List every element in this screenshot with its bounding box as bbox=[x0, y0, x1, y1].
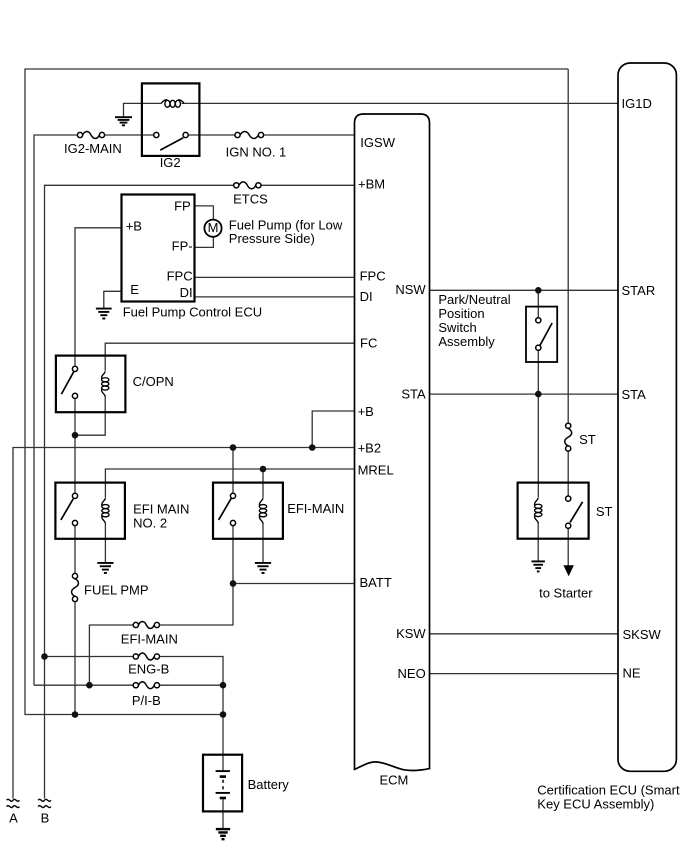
relay EFI-MAIN switch blade bbox=[219, 498, 232, 520]
junction ENG-B row on node B line bbox=[41, 653, 48, 660]
fuse IGN NO. 1 bbox=[240, 132, 258, 139]
wire EFI MAIN NO. 2 relay coil to ground bbox=[104, 522, 106, 562]
wire P/I-B fuse to battery positive column bbox=[160, 684, 224, 686]
fuse EFI-MAIN bbox=[138, 622, 154, 629]
wire ECM pin MREL row to EFI MAIN NO. 2 relay coil bbox=[105, 469, 354, 498]
wire battery negative to ground bbox=[222, 798, 224, 829]
svg-text:ENG-B: ENG-B bbox=[128, 662, 169, 677]
park/neutral position switch contacts bbox=[536, 318, 541, 323]
svg-text:NSW: NSW bbox=[395, 282, 426, 297]
wire IG2 relay coil to Certification ECU pin IG1D bbox=[182, 102, 618, 104]
junction FUEL PMP line / battery feed row bbox=[72, 711, 79, 718]
wire node B branch (vertical to break B, row to ETCS fuse) bbox=[45, 185, 234, 798]
wire C/OPN relay coil return to switch line junction bbox=[75, 396, 105, 436]
svg-text:KSW: KSW bbox=[396, 626, 426, 641]
relay EFI MAIN NO. 2 box bbox=[55, 483, 125, 539]
fuse P/I-B bbox=[138, 682, 154, 689]
svg-text:NE: NE bbox=[623, 666, 641, 681]
break symbol node B bbox=[38, 799, 51, 801]
svg-text:IG2-MAIN: IG2-MAIN bbox=[64, 141, 122, 156]
svg-text:to Starter: to Starter bbox=[539, 585, 593, 600]
svg-text:+B: +B bbox=[358, 404, 374, 419]
svg-text:B: B bbox=[41, 811, 50, 826]
svg-text:+B2: +B2 bbox=[358, 440, 382, 455]
svg-text:DI: DI bbox=[360, 289, 373, 304]
relay ST switch contacts bbox=[566, 496, 571, 501]
svg-text:FPC: FPC bbox=[167, 269, 193, 284]
wire park/neutral position switch to STA node bbox=[537, 350, 539, 394]
svg-text:Position: Position bbox=[438, 306, 484, 321]
ground G2 (Fuel Pump Control ECU pin E ground) bbox=[96, 308, 112, 310]
wire Fuel Pump Control ECU pin DI to ECM pin DI bbox=[195, 296, 355, 298]
relay ST switch blade bbox=[570, 502, 583, 523]
Fuel Pump Control ECU box bbox=[122, 195, 195, 302]
wire ECM pin FC to C/OPN relay coil bbox=[105, 343, 354, 371]
fuel pump motor M1 bbox=[204, 220, 221, 237]
wire IG2 relay coil to ground (left stub) bbox=[124, 103, 162, 117]
svg-text:Switch: Switch bbox=[438, 320, 476, 335]
wire ENG-B row (node B vertical to battery positive column) bbox=[45, 656, 134, 658]
wire EFI-MAIN fuse to P/I-B row junction bbox=[89, 625, 133, 685]
wire NSW node down to park/neutral position switch bbox=[537, 290, 539, 317]
ground G4 (EFI-MAIN relay coil ground) bbox=[255, 562, 271, 564]
svg-text:Park/Neutral: Park/Neutral bbox=[438, 292, 510, 307]
wire ECM pin NSW to Certification ECU pin STAR bbox=[430, 289, 619, 291]
svg-text:STAR: STAR bbox=[622, 283, 656, 298]
wire Fuel Pump Control ECU pin FP to fuel pump motor bbox=[195, 206, 214, 220]
wire EFI MAIN NO. 2 relay switch to FUEL PMP fuse bbox=[74, 526, 76, 574]
svg-text:DI: DI bbox=[180, 285, 193, 300]
junction P/I-B row / battery column bbox=[220, 682, 227, 689]
svg-text:Certification ECU (Smart: Certification ECU (Smart bbox=[537, 783, 680, 798]
wire ST fuse to ST relay switch bbox=[567, 451, 569, 496]
fuse ENG-B bbox=[138, 653, 154, 660]
fuse ST bbox=[565, 428, 572, 446]
junction +B2 row / EFI-MAIN relay switch bbox=[230, 444, 237, 451]
wire IG2-MAIN fuse to IG2 relay switch bbox=[105, 134, 154, 136]
wire EFI-MAIN relay coil to ground bbox=[262, 522, 264, 562]
junction +B stub on +B2 row bbox=[309, 444, 316, 451]
relay IG2 coil bbox=[161, 100, 167, 104]
svg-text:BATT: BATT bbox=[360, 575, 392, 590]
wire ECM pin NEO to Certification ECU pin NE bbox=[430, 673, 619, 675]
wire ST relay switch to starter (arrow) bbox=[567, 528, 569, 566]
svg-text:+B: +B bbox=[126, 218, 142, 233]
wire IGN NO. 1 fuse to ECM pin IGSW bbox=[264, 134, 355, 136]
svg-text:STA: STA bbox=[401, 386, 426, 401]
wire STA node down to ST relay coil bbox=[537, 394, 539, 497]
svg-text:ST: ST bbox=[596, 504, 613, 519]
battery plate long bottom bbox=[216, 792, 230, 794]
svg-text:NEO: NEO bbox=[398, 666, 426, 681]
svg-text:FP: FP bbox=[174, 199, 191, 214]
svg-text:ST: ST bbox=[579, 432, 596, 447]
svg-text:IGSW: IGSW bbox=[360, 135, 395, 150]
park/neutral position switch box bbox=[526, 307, 557, 362]
wire Fuel Pump Control ECU pin +B to C/OPN relay switch bbox=[75, 228, 122, 366]
svg-text:ETCS: ETCS bbox=[233, 191, 268, 206]
wire +B2 row junction down to EFI-MAIN relay switch bbox=[232, 448, 234, 494]
ECM box bbox=[355, 114, 430, 771]
ground G5 (ST relay coil ground) bbox=[532, 560, 545, 562]
battery dashed middle bbox=[222, 780, 224, 790]
wire battery positive rail (top frame: left side down to battery feed row) bbox=[25, 69, 568, 715]
svg-text:Fuel Pump (for Low: Fuel Pump (for Low bbox=[229, 217, 343, 232]
svg-text:IGN NO. 1: IGN NO. 1 bbox=[226, 144, 287, 159]
wire ENG-B fuse to battery positive column bbox=[160, 657, 224, 755]
wire FUEL PMP fuse to battery feed row bbox=[74, 601, 76, 714]
relay EFI-MAIN coil bbox=[259, 498, 263, 505]
svg-text:Pressure Side): Pressure Side) bbox=[229, 231, 315, 246]
wire ST relay coil to ground bbox=[537, 522, 539, 561]
svg-text:Fuel Pump Control ECU: Fuel Pump Control ECU bbox=[123, 305, 262, 320]
wire node A branch / +B2 row (break A up and right to ECM pin +B2) bbox=[13, 448, 355, 799]
fuse FUEL PMP bbox=[72, 579, 79, 597]
wire fuel pump motor to Fuel Pump Control ECU pin FP- bbox=[195, 237, 214, 248]
svg-text:MREL: MREL bbox=[358, 462, 394, 477]
svg-text:FC: FC bbox=[360, 335, 377, 350]
relay EFI MAIN NO. 2 coil bbox=[102, 498, 106, 505]
svg-text:SKSW: SKSW bbox=[623, 627, 662, 642]
wire EFI-MAIN relay coil tap from MREL row bbox=[262, 469, 264, 498]
relay EFI-MAIN switch contacts bbox=[230, 493, 235, 498]
battery plate long top bbox=[216, 770, 230, 772]
relay EFI MAIN NO. 2 switch contacts bbox=[72, 493, 77, 498]
relay EFI MAIN NO. 2 switch blade bbox=[61, 498, 74, 520]
svg-text:EFI-MAIN: EFI-MAIN bbox=[121, 631, 178, 646]
svg-text:Assembly: Assembly bbox=[438, 334, 495, 349]
wire battery positive plate (inside battery box) bbox=[222, 755, 224, 771]
relay EFI-MAIN box bbox=[213, 483, 283, 539]
svg-text:+BM: +BM bbox=[358, 176, 385, 191]
junction STA / ST relay coil bbox=[535, 391, 542, 398]
svg-text:C/OPN: C/OPN bbox=[133, 374, 174, 389]
svg-text:E: E bbox=[130, 282, 139, 297]
wire BATT row junction to ECM pin BATT bbox=[233, 583, 355, 585]
wire ETCS fuse to ECM pin +BM bbox=[261, 184, 355, 186]
junction P/I-B row / EFI-MAIN fuse branch bbox=[86, 682, 93, 689]
svg-text:FP-: FP- bbox=[172, 238, 193, 253]
wire IG2-MAIN branch (vertical from P/I-B row up, row to IG2-MAIN fuse) bbox=[34, 135, 77, 685]
svg-text:FPC: FPC bbox=[360, 268, 386, 283]
svg-text:IG1D: IG1D bbox=[622, 96, 652, 111]
svg-text:A: A bbox=[9, 811, 18, 826]
svg-text:M: M bbox=[208, 220, 219, 235]
svg-text:Battery: Battery bbox=[248, 777, 290, 792]
svg-text:EFI-MAIN: EFI-MAIN bbox=[287, 501, 344, 516]
break symbol node A bbox=[7, 799, 20, 801]
ground G6 (battery negative ground) bbox=[216, 828, 230, 830]
Certification ECU box bbox=[618, 63, 676, 771]
svg-text:STA: STA bbox=[622, 387, 647, 402]
relay ST coil bbox=[535, 498, 539, 505]
junction battery feed row / battery column bbox=[220, 711, 227, 718]
battery plate short top bbox=[220, 775, 226, 778]
junction C/OPN coil return on switch line bbox=[72, 432, 79, 439]
wire BATT junction down to EFI-MAIN fuse row bbox=[160, 584, 234, 626]
relay C/OPN box bbox=[56, 356, 126, 413]
relay IG2 switch blade bbox=[160, 138, 183, 150]
wire P/I-B row (left segment) bbox=[34, 684, 133, 686]
svg-text:IG2: IG2 bbox=[160, 155, 181, 170]
ground G1 (IG2 relay coil ground) bbox=[115, 116, 132, 118]
wire ECM pin KSW to Certification ECU pin SKSW bbox=[430, 633, 619, 635]
wire EFI-MAIN relay switch to BATT row junction bbox=[232, 526, 234, 584]
wire C/OPN relay switch to EFI MAIN NO. 2 relay switch bbox=[74, 399, 76, 494]
wire starter feed drop (right side of frame down to ST fuse) bbox=[567, 69, 569, 423]
svg-text:Key ECU Assembly): Key ECU Assembly) bbox=[537, 797, 654, 812]
wire Fuel Pump Control ECU pin FPC to ECM pin FPC bbox=[195, 276, 355, 278]
junction MREL row / EFI-MAIN relay coil bbox=[260, 466, 267, 473]
park/neutral position switch blade bbox=[540, 323, 552, 346]
fuse ETCS bbox=[239, 182, 256, 189]
relay C/OPN switch contacts bbox=[72, 366, 77, 371]
relay IG2 box bbox=[142, 83, 200, 155]
svg-text:FUEL PMP: FUEL PMP bbox=[84, 583, 149, 598]
battery plate short bottom bbox=[220, 797, 226, 800]
ground G3 (EFI MAIN NO. 2 relay coil ground) bbox=[97, 562, 113, 564]
svg-text:EFI MAIN: EFI MAIN bbox=[133, 501, 189, 516]
relay ST box bbox=[518, 483, 589, 539]
svg-text:NO. 2: NO. 2 bbox=[133, 515, 167, 530]
junction NSW / park-neutral switch bbox=[535, 287, 542, 294]
relay C/OPN coil bbox=[102, 371, 106, 378]
wire IG2 relay switch to IGN NO. 1 fuse bbox=[188, 134, 235, 136]
junction BATT row / EFI-MAIN feed bbox=[230, 580, 237, 587]
battery box bbox=[203, 755, 242, 812]
relay IG2 switch contacts bbox=[154, 132, 159, 137]
arrow to starter bbox=[563, 565, 574, 576]
fuse IG2-MAIN bbox=[83, 132, 100, 139]
svg-text:ECM: ECM bbox=[380, 773, 409, 788]
wire ECM pin STA to Certification ECU pin STA bbox=[430, 393, 619, 395]
relay C/OPN switch blade bbox=[61, 371, 74, 394]
svg-text:P/I-B: P/I-B bbox=[132, 693, 161, 708]
wire Fuel Pump Control ECU pin E to ground bbox=[104, 291, 122, 308]
wire ECM pin +B stub to +B2 row bbox=[312, 411, 354, 448]
